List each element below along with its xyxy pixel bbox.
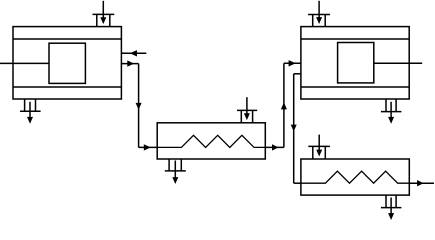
arrow out of E2 bottom bbox=[388, 198, 394, 221]
vessel V2 bottom nozzle sides bbox=[385, 99, 387, 112]
E1 bottom nozzle sides bbox=[168, 159, 170, 171]
E2 top nozzle sides bbox=[312, 146, 314, 159]
wire outlet stream E1 right bbox=[265, 144, 284, 150]
vessel V1 bottom nozzle flange bbox=[20, 110, 41, 112]
wire feed stream into V1 bbox=[0, 62, 49, 64]
vessel V2 bottom band line bbox=[301, 86, 409, 88]
wire outlet stream V2 left horizontal bbox=[294, 73, 301, 75]
heat exchanger E1 shell bbox=[157, 123, 265, 159]
vessel V2 top nozzle flange bbox=[308, 14, 330, 16]
arrow out of E1 bottom bbox=[172, 161, 178, 185]
vessel V2 bottom nozzle flange bbox=[381, 111, 402, 113]
vessel V2 top band line bbox=[301, 38, 409, 40]
arrow out of V2 bottom bbox=[388, 102, 394, 124]
vessel V1 top nozzle sides bbox=[96, 14, 98, 26]
E1 bottom nozzle flange bbox=[165, 170, 186, 172]
vessel V2 body bbox=[301, 27, 409, 99]
E2 top nozzle flange bbox=[308, 145, 330, 147]
wire outlet stream V1 down riser bbox=[136, 64, 142, 148]
vessel V1 top nozzle flange bbox=[93, 13, 115, 15]
vessel V1 body bbox=[13, 27, 121, 99]
wire stream into E2 left bbox=[294, 182, 301, 184]
arrow into E1 top nozzle bbox=[244, 97, 250, 120]
wire inlet stream into V1 right side bbox=[121, 50, 146, 56]
vessel V1 top band line bbox=[13, 38, 121, 40]
wire outlet stream V1 to E1: horizontal out bbox=[121, 60, 138, 66]
arrow into V2 top nozzle bbox=[316, 1, 322, 24]
vessel V1 inner box bbox=[49, 43, 85, 83]
E1 top nozzle sides bbox=[240, 110, 242, 122]
vessel V2 inner box bbox=[338, 43, 374, 83]
vessel V2 top nozzle sides bbox=[312, 15, 314, 27]
wire stream into E1 left bbox=[139, 144, 158, 150]
wire product stream out of E2 right bbox=[409, 180, 434, 186]
heat exchanger E1 coil zigzag bbox=[157, 135, 265, 147]
vessel V1 bottom nozzle sides bbox=[24, 99, 26, 111]
E2 bottom nozzle sides bbox=[385, 195, 387, 208]
vessel V1 bottom band line bbox=[13, 86, 121, 88]
arrow out of V1 bottom bbox=[27, 102, 33, 124]
heat exchanger E2 coil zigzag bbox=[301, 171, 409, 183]
wire riser up to V2 bbox=[281, 63, 287, 147]
E2 bottom nozzle flange bbox=[381, 207, 402, 209]
wire V2 outlet down riser bbox=[291, 74, 297, 183]
heat exchanger E2 shell bbox=[301, 159, 409, 195]
wire product stream out of V2 right bbox=[374, 62, 422, 64]
wire stream into V2 left bbox=[284, 60, 301, 66]
E1 top nozzle flange bbox=[237, 109, 257, 111]
arrow into E2 top nozzle bbox=[316, 135, 322, 157]
arrow into V1 top nozzle bbox=[100, 1, 106, 24]
